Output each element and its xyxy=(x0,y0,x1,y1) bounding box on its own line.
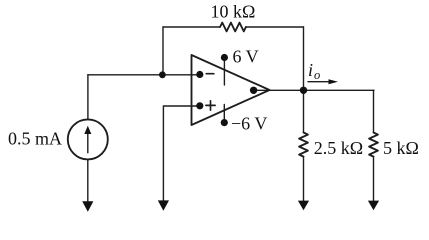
svg-text:−6 V: −6 V xyxy=(231,113,267,133)
svg-text:o: o xyxy=(314,68,320,82)
svg-text:10 kΩ: 10 kΩ xyxy=(211,2,256,22)
svg-text:2.5 kΩ: 2.5 kΩ xyxy=(314,138,363,158)
svg-text:i: i xyxy=(308,60,313,80)
svg-text:5 kΩ: 5 kΩ xyxy=(383,138,419,158)
svg-text:0.5 mA: 0.5 mA xyxy=(8,129,62,149)
svg-text:6 V: 6 V xyxy=(233,47,259,67)
